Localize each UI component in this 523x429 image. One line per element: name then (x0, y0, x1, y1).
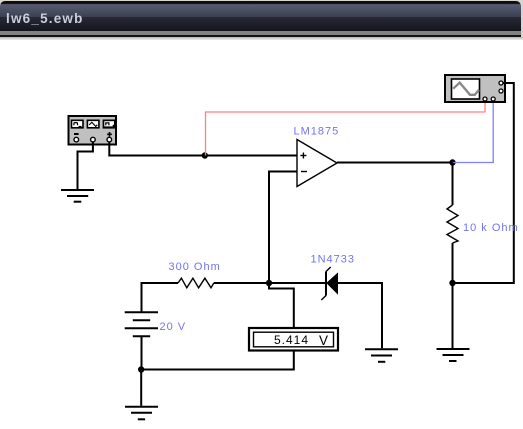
battery V1 (125, 312, 158, 336)
node dot battery bottom (138, 366, 144, 372)
red wire to oscilloscope input A (206, 101, 486, 156)
wire from resistor R1 to bottom node (452, 243, 454, 283)
ground under generator (61, 190, 94, 202)
wire from generator common to ground (78, 142, 93, 190)
wire resistor R2 to feedback node (214, 282, 269, 284)
wire feedback node to zener (269, 282, 326, 284)
oscilloscope (445, 75, 505, 102)
svg-text:10 k Ohm: 10 k Ohm (463, 222, 519, 234)
op-amp output wire (337, 162, 453, 164)
resistor R1 10k zigzag (447, 205, 458, 243)
node dot at op-amp output (449, 159, 455, 165)
title bar (0, 0, 523, 37)
op-amp U1 LM1875 (297, 140, 337, 187)
wire from generator + output to op-amp + input (109, 142, 297, 156)
zener diode D1 1N4733 (321, 267, 337, 300)
ground under R1 (437, 349, 470, 361)
wire bottom node to ground (452, 283, 454, 348)
svg-text:5.414: 5.414 (274, 333, 309, 347)
wire from output node to resistor R1 (452, 163, 454, 206)
svg-text:20 V: 20 V (160, 321, 187, 333)
voltmeter M1 (249, 328, 338, 351)
svg-text:300 Ohm: 300 Ohm (169, 261, 221, 273)
svg-text:1N4733: 1N4733 (311, 254, 356, 266)
wire bottom rail to voltmeter (141, 351, 294, 370)
function generator (69, 116, 117, 145)
wire feedback node to voltmeter top (269, 283, 294, 328)
ground bottom left (125, 407, 158, 420)
node dot at generator output (202, 152, 208, 158)
node dot feedback node (266, 280, 272, 286)
blue wire to oscilloscope input B (453, 101, 494, 163)
resistor R2 300 Ohm zigzag (178, 278, 214, 288)
ground right of zener (365, 349, 398, 362)
title text lw6_5.ewb (6, 11, 84, 26)
wire battery bottom to node (141, 336, 143, 369)
wire from scope ground terminal to bottom node (453, 83, 514, 283)
node dot at bottom of R1 (449, 280, 455, 286)
wire zener to ground (338, 283, 383, 348)
svg-text:V: V (319, 333, 328, 348)
wire battery top to resistor R2 (142, 283, 179, 312)
svg-text:LM1875: LM1875 (294, 125, 340, 137)
wire from inverting input down to feedback node (269, 172, 297, 284)
wire node to ground bottom left (140, 370, 142, 406)
